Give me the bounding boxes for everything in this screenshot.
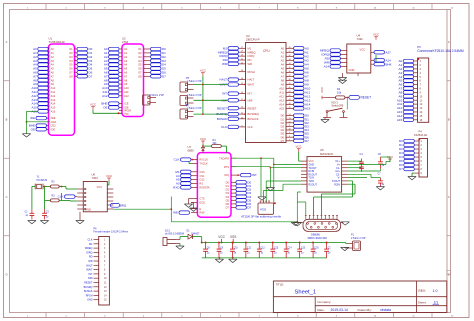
svg-text:O3: O3 [69,55,73,59]
svg-text:27: 27 [48,106,50,108]
svg-text:BUSACK: BUSACK [248,117,259,121]
svg-text:D6: D6 [226,202,230,206]
svg-text:7: 7 [289,139,290,141]
svg-text:BUSAK: BUSAK [217,117,227,121]
svg-text:A12: A12 [51,94,56,98]
svg-text:AT25/0.3P flat soldering needl: AT25/0.3P flat soldering needle [241,215,281,219]
svg-text:A3: A3 [281,58,285,62]
svg-text:6: 6 [75,67,76,69]
svg-text:A7: A7 [51,74,55,78]
svg-text:19: 19 [48,75,50,77]
svg-text:CLK: CLK [58,195,64,199]
svg-text:BUSRQ: BUSRQ [84,286,93,289]
svg-text:VCC: VCC [218,235,225,239]
svg-text:HC49/US: HC49/US [37,179,48,182]
svg-text:10: 10 [288,129,290,131]
svg-text:/OE: /OE [51,127,56,131]
svg-text:CPU: CPU [263,49,270,53]
svg-text:D7: D7 [226,206,230,210]
svg-text:VCC: VCC [106,174,113,178]
svg-text:Sheet_1: Sheet_1 [295,289,317,295]
svg-text:A2: A2 [124,55,128,59]
svg-text:A15: A15 [51,106,56,110]
svg-text:DCD: DCD [199,201,205,205]
svg-text:RD: RD [248,58,252,62]
svg-text:B: B [448,118,450,122]
svg-text:O8: O8 [138,74,142,78]
svg-text:/CE: /CE [124,102,129,106]
svg-text:2.54mm 1*2P: 2.54mm 1*2P [351,237,366,240]
svg-text:VCC: VCC [200,69,207,73]
svg-text:23: 23 [241,117,243,119]
svg-text:19: 19 [241,51,243,53]
svg-text:IORQ: IORQ [248,54,255,58]
svg-text:A13: A13 [51,98,56,102]
svg-text:RD: RD [89,256,93,259]
svg-text:WE: WE [173,211,178,215]
svg-text:25: 25 [48,98,50,100]
svg-text:REV:: REV: [418,289,425,293]
svg-text:AT25: AT25 [260,207,267,211]
svg-text:11: 11 [289,125,291,127]
svg-text:D4: D4 [226,195,230,199]
svg-text:2: 2 [75,52,76,54]
svg-text:VCC: VCC [320,86,324,93]
svg-text:BUSAK: BUSAK [84,290,93,293]
svg-text:A10: A10 [279,87,284,91]
svg-text:WR: WR [88,260,92,263]
svg-text:/WE: /WE [51,116,56,120]
svg-text:D2: D2 [281,121,285,125]
svg-text:A0: A0 [281,46,285,50]
svg-text:Drawn By:: Drawn By: [358,308,372,312]
svg-text:M1: M1 [89,243,93,246]
svg-text:CTS: CTS [199,197,204,201]
svg-text:A1: A1 [281,50,285,54]
svg-text:18: 18 [48,71,50,73]
svg-text:16: 16 [241,92,243,94]
svg-text:36: 36 [288,71,290,73]
svg-text:A15: A15 [397,118,403,122]
svg-text:A8: A8 [281,78,285,82]
svg-text:D7: D7 [305,139,309,143]
svg-text:TITLE:: TITLE: [276,282,285,286]
svg-text:O5: O5 [138,63,142,67]
svg-text:13: 13 [288,118,290,120]
svg-text:R2IN: R2IN [334,183,340,186]
svg-text:CLK: CLK [248,125,253,129]
svg-text:40: 40 [288,87,290,89]
svg-text:A17: A17 [386,50,392,54]
svg-text:D7: D7 [399,167,403,171]
svg-text:39: 39 [288,83,290,85]
svg-text:22: 22 [241,62,243,64]
svg-text:A16: A16 [51,110,56,114]
svg-text:28: 28 [48,110,50,112]
svg-text:A15: A15 [279,107,284,111]
svg-text:Z80CPU-P: Z80CPU-P [246,38,260,42]
svg-text:A11: A11 [51,90,56,94]
svg-text:A: A [6,40,8,44]
svg-text:8: 8 [289,136,290,138]
svg-text:RESET: RESET [248,106,257,110]
svg-text:38: 38 [288,79,290,81]
svg-text:30: 30 [288,47,290,49]
svg-text:OE: OE [31,127,35,131]
svg-text:A6: A6 [124,71,128,75]
svg-text:O7: O7 [138,71,142,75]
svg-text:E: E [199,207,201,211]
svg-text:DB9(M): DB9(M) [311,232,320,236]
svg-text:25: 25 [241,113,243,115]
svg-text:Sheet:: Sheet: [418,301,427,305]
svg-text:A14: A14 [279,103,284,107]
svg-text:R/W: R/W [199,211,205,215]
svg-text:A2: A2 [51,55,55,59]
svg-text:VCC: VCC [90,103,97,107]
svg-text:21: 21 [241,59,243,61]
svg-text:33: 33 [288,59,290,61]
svg-text:2.54mm 1*2P: 2.54mm 1*2P [187,94,202,97]
svg-text:A5: A5 [124,67,128,71]
svg-text:ConnectorKF2510-16A 2.54MM: ConnectorKF2510-16A 2.54MM [417,49,464,53]
svg-text:WR: WR [222,62,228,66]
svg-text:9: 9 [289,132,290,134]
svg-text:10k: 10k [337,91,342,95]
svg-text:2.54mm 1*2P: 2.54mm 1*2P [187,107,202,110]
svg-text:O6: O6 [69,67,73,71]
svg-text:Vpp: Vpp [124,111,129,115]
svg-text:Company:: Company: [317,300,331,304]
svg-text:44: 44 [288,103,290,105]
svg-text:M1: M1 [248,46,252,50]
svg-text:VCC: VCC [97,185,103,189]
svg-text:O5: O5 [69,63,73,67]
svg-text:D2: D2 [226,188,230,192]
svg-text:C11: C11 [247,247,252,249]
svg-text:MREQ: MREQ [248,50,256,54]
svg-text:O7: O7 [69,71,73,75]
svg-text:17: 17 [48,67,50,69]
svg-text:22: 22 [48,87,50,89]
svg-text:BHK: BHK [386,62,392,66]
svg-text:HALT: HALT [86,264,93,267]
svg-text:A: A [448,40,450,44]
svg-text:A12: A12 [102,94,108,98]
svg-text:KF2510-9A: KF2510-9A [414,133,427,137]
svg-text:WAIT: WAIT [248,83,255,87]
svg-text:A8: A8 [124,78,128,82]
svg-text:CLK: CLK [174,158,180,162]
svg-text:RXCLK: RXCLK [199,158,208,162]
svg-text:OE: OE [103,106,107,110]
svg-text:VCC: VCC [296,145,303,149]
svg-text:3: 3 [75,55,76,57]
svg-text:WAIT: WAIT [86,269,93,272]
svg-text:A11: A11 [279,91,284,95]
svg-text:A5: A5 [281,66,285,70]
svg-text:28: 28 [241,70,243,72]
svg-text:CE2: CE2 [51,124,57,128]
svg-text:R1: R1 [337,87,341,91]
svg-text:A13: A13 [279,99,284,103]
svg-text:A0: A0 [51,47,55,51]
svg-text:NMI: NMI [248,98,253,102]
svg-text:MAX232N: MAX232N [320,152,333,156]
svg-text:A4: A4 [281,62,285,66]
svg-text:O4: O4 [69,59,73,63]
svg-text:MREQ: MREQ [85,247,93,250]
svg-text:20: 20 [48,79,50,81]
svg-text:26: 26 [48,102,50,104]
svg-text:WE: WE [30,116,35,120]
svg-text:dc-005 5.0-BEDM: dc-005 5.0-BEDM [165,233,184,236]
svg-text:R2OUT: R2OUT [309,183,318,186]
svg-text:A14: A14 [324,65,330,69]
svg-text:CS0: CS0 [199,170,205,174]
svg-text:7404: 7404 [92,176,99,180]
svg-text:C: C [6,195,8,199]
svg-text:15: 15 [48,59,50,61]
svg-text:4: 4 [75,59,76,61]
svg-text:D0: D0 [281,114,285,118]
svg-text:D7: D7 [162,74,166,78]
svg-text:23: 23 [48,91,50,93]
svg-text:A14: A14 [51,102,56,106]
svg-text:VCC: VCC [200,137,207,141]
svg-text:A0: A0 [124,47,128,51]
svg-text:RESET: RESET [217,106,227,110]
svg-text:D1: D1 [281,117,285,121]
svg-text:O8: O8 [69,74,73,78]
svg-text:6850: 6850 [188,149,195,153]
svg-text:24: 24 [241,83,243,85]
svg-text:O1: O1 [69,47,73,51]
svg-text:A7: A7 [124,74,128,78]
svg-text:D4: D4 [281,128,285,132]
svg-text:C15: C15 [301,247,306,249]
svg-text:RXDATA: RXDATA [199,186,209,190]
svg-text:B: B [6,118,8,122]
svg-text:26: 26 [241,107,243,109]
svg-text:2019-03-14: 2019-03-14 [331,308,348,312]
svg-text:16: 16 [48,63,50,65]
svg-text:A3: A3 [51,59,55,63]
svg-text:A10: A10 [51,86,56,90]
svg-text:INT: INT [222,92,227,96]
svg-text:A9: A9 [281,82,285,86]
svg-text:13: 13 [48,52,50,54]
svg-text:31: 31 [288,51,290,53]
svg-text:41: 41 [288,91,290,93]
svg-text:43: 43 [288,99,290,101]
svg-text:A7: A7 [281,74,285,78]
svg-text:RFSH: RFSH [248,70,255,74]
svg-text:CLK: CLK [221,125,227,129]
svg-text:A12: A12 [124,94,129,98]
svg-text:RXD: RXD [173,186,180,190]
svg-text:42: 42 [288,95,290,97]
svg-text:NMI: NMI [88,277,93,280]
svg-text:C14: C14 [287,247,292,249]
svg-text:7432: 7432 [357,37,364,41]
svg-text:14: 14 [48,55,50,57]
svg-text:2.54mm 1*2P: 2.54mm 1*2P [150,94,165,97]
svg-text:D7: D7 [247,206,251,210]
svg-text:IORQ: IORQ [86,251,92,254]
svg-text:27: 27 [241,47,243,49]
svg-text:C16: C16 [314,247,319,249]
svg-text:RESET: RESET [84,282,93,285]
svg-text:GND: GND [349,68,355,72]
svg-text:A12: A12 [279,95,284,99]
svg-text:RS: RS [199,182,203,186]
svg-text:A5: A5 [51,67,55,71]
svg-text:Female header 1X15P 2.54mm: Female header 1X15P 2.54mm [94,231,129,234]
svg-text:35: 35 [288,67,290,69]
svg-text:CS2: CS2 [199,178,205,182]
svg-text:CS1: CS1 [199,174,205,178]
svg-text:BUSREQ: BUSREQ [248,112,259,116]
svg-text:D: D [6,273,8,277]
svg-text:37: 37 [288,75,290,77]
svg-text:A4: A4 [124,63,128,67]
svg-text:A6: A6 [51,71,55,75]
svg-text:SwitchJFB: SwitchJFB [332,105,344,108]
svg-text:/CE1: /CE1 [51,120,57,124]
svg-text:INT: INT [88,273,93,276]
svg-text:7: 7 [75,71,76,73]
svg-text:12: 12 [288,121,290,123]
svg-text:INT: INT [252,173,257,177]
svg-text:5: 5 [75,63,76,65]
svg-text:VCC: VCC [373,33,380,37]
svg-text:14: 14 [288,114,290,116]
svg-text:A11: A11 [124,90,129,94]
svg-text:RFSH: RFSH [86,294,93,297]
svg-text:D3: D3 [226,191,230,195]
svg-text:A9: A9 [124,82,128,86]
svg-text:A8: A8 [51,78,55,82]
svg-text:A6: A6 [281,70,285,74]
svg-text:RESET: RESET [361,96,372,100]
svg-text:9MDC-9S02 902: 9MDC-9S02 902 [308,236,328,240]
svg-text:24: 24 [48,94,50,96]
svg-text:TXCLK: TXCLK [199,162,208,166]
svg-text:BRQ: BRQ [120,203,127,207]
svg-text:21: 21 [48,83,50,85]
svg-text:2.54mm 1*2P: 2.54mm 1*2P [187,80,202,83]
svg-text:D5: D5 [226,198,230,202]
svg-text:1.0: 1.0 [433,289,438,293]
svg-text:WR: WR [248,62,253,66]
svg-text:A2: A2 [281,54,285,58]
svg-text:C12: C12 [261,247,266,249]
svg-text:Date:: Date: [317,308,325,312]
svg-text:GND: GND [87,299,93,302]
svg-text:32: 32 [288,55,290,57]
svg-text:O3: O3 [138,55,142,59]
svg-text:HALT: HALT [248,78,255,82]
svg-text:A15: A15 [305,107,311,111]
svg-text:A9: A9 [51,82,55,86]
svg-text:C13: C13 [274,247,279,249]
svg-text:VCC: VCC [360,48,366,52]
svg-text:34: 34 [288,63,290,65]
svg-text:17: 17 [241,99,243,101]
svg-text:45: 45 [288,107,290,109]
svg-text:A1: A1 [124,51,128,55]
svg-text:6: 6 [241,125,242,127]
svg-text:20: 20 [241,55,243,57]
svg-text:D5: D5 [281,132,285,136]
svg-text:1/1: 1/1 [434,301,439,305]
svg-text:CLK: CLK [88,239,93,242]
svg-text:D7: D7 [281,139,285,143]
svg-text:12: 12 [48,48,50,50]
svg-text:C10: C10 [234,247,239,249]
svg-text:D3: D3 [281,125,285,129]
svg-text:RTS: RTS [224,165,229,169]
svg-text:D1: D1 [226,184,230,188]
svg-text:8: 8 [75,75,76,77]
svg-text:TXDATA: TXDATA [219,156,229,160]
svg-text:D7: D7 [89,74,93,78]
svg-text:D6: D6 [281,135,285,139]
svg-text:1: 1 [75,48,76,50]
svg-text:O6: O6 [138,67,142,71]
svg-text:IRQ: IRQ [224,173,229,177]
svg-text:A3: A3 [124,59,128,63]
svg-text:O2: O2 [138,51,142,55]
svg-text:A10: A10 [124,86,129,90]
svg-text:O4: O4 [138,59,142,63]
svg-text:A1: A1 [51,51,55,55]
svg-text:VSS: VSS [230,235,236,239]
svg-text:O1: O1 [138,47,142,51]
svg-text:D0: D0 [226,180,230,184]
svg-text:O2: O2 [69,51,73,55]
svg-text:xindata: xindata [380,308,391,312]
svg-text:C: C [448,195,450,199]
svg-text:INT: INT [248,92,253,96]
svg-text:18: 18 [241,78,243,80]
svg-text:HALT: HALT [220,78,228,82]
svg-text:A4: A4 [51,63,55,67]
